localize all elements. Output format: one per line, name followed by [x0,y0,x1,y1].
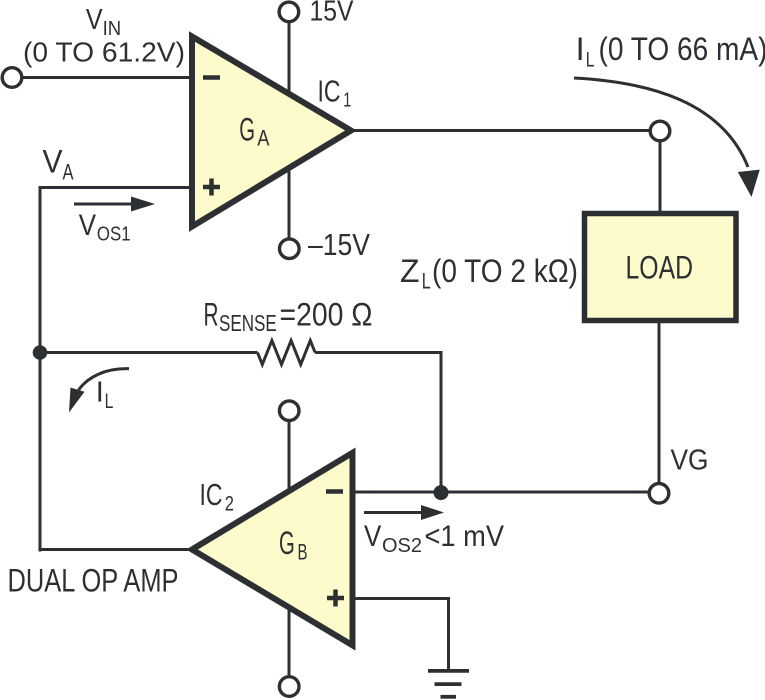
svg-text:R: R [204,297,219,333]
label GB (gain B) [279,525,308,565]
node/terminal at IC1 output [650,121,670,141]
svg-text:G: G [279,525,295,561]
svg-text:L: L [105,390,114,413]
label GA (gain A) [239,111,269,150]
junction node A (left) [33,345,48,360]
IC2 noninverting pin (+) [327,590,344,607]
IC2 inverting pin (-) [326,489,343,494]
svg-text:OS1: OS1 [97,223,131,246]
svg-text:Z: Z [400,253,420,289]
svg-text:<1 mV: <1 mV [425,520,505,553]
svg-text:DUAL OP AMP: DUAL OP AMP [8,563,179,599]
svg-text:OS2: OS2 [382,534,422,557]
svg-text:I: I [576,31,585,67]
wire node A to resistor [40,351,258,354]
svg-text:V: V [364,520,382,553]
arrow IL (curved, left) [69,369,129,413]
svg-text:I: I [96,377,104,409]
label VA [43,144,74,185]
label ZL (0 TO 2 kOhm) [400,253,578,294]
wire -15V supply to IC1 [288,171,291,239]
svg-text:VG: VG [671,445,709,477]
svg-text:V: V [43,144,64,180]
resistor RSENSE [258,341,316,365]
wire IC2 inverting input to VG [351,491,649,494]
terminal +15V [279,2,299,22]
wire node A down to IC2 input [40,548,195,551]
terminal -15V [280,239,300,259]
svg-text:IC: IC [318,74,341,108]
wire +15V supply to IC1 [288,23,291,96]
label VOS2<1 mV [364,520,504,557]
label IC1 [318,74,352,111]
svg-text:(0 TO 66 mA): (0 TO 66 mA) [599,31,765,67]
wire IC2 positive supply [288,421,291,490]
svg-text:–15V: –15V [308,228,371,262]
svg-text:L: L [422,269,431,294]
IC1 noninverting pin (+) [203,179,220,196]
terminal IC2 V+ [279,401,299,421]
svg-text:(0 TO 2 kΩ): (0 TO 2 kΩ) [432,253,578,289]
svg-text:V: V [86,4,103,36]
label VOS1 [79,209,131,246]
svg-text:L: L [586,48,595,72]
op-amp IC1 [192,37,351,227]
arrow VOS2 [364,505,444,520]
svg-text:2: 2 [225,492,234,515]
wire IC2 noninverting input to ground [351,599,449,671]
wire IC1 output to load node [350,129,650,132]
label IL (0 TO 66 mA) [576,31,765,71]
load Z_L (LOAD box) [585,214,737,321]
label VIN [86,4,121,40]
IC1 inverting pin (-) [203,75,220,80]
input terminal (VIN) [2,68,22,88]
svg-text:(0 TO 61.2V): (0 TO 61.2V) [23,37,185,68]
wire VA horizontal to IC1 noninverting input [40,186,193,189]
svg-text:=200 Ω: =200 Ω [280,297,373,333]
wire resistor to inverting input net [315,353,441,493]
wire LOAD to VG node [658,320,661,484]
label RSENSE=200 Ohm [204,297,373,336]
svg-text:1: 1 [343,88,351,111]
label IC2 [200,478,234,516]
label IL (left) [96,377,113,414]
arrow VOS1 [74,197,155,212]
svg-text:SENSE: SENSE [219,310,277,336]
arrow IL (curved, top right) [574,78,760,197]
wire load node down to LOAD [659,142,662,215]
svg-text:A: A [63,160,74,185]
svg-text:G: G [239,111,255,147]
svg-text:V: V [79,209,97,242]
svg-text:B: B [298,540,308,565]
wire IC2 negative supply [288,605,291,677]
ground [428,671,469,697]
svg-text:A: A [257,126,269,151]
junction at inverting input net [434,485,449,500]
op-amp IC2 [192,453,353,646]
svg-text:IC: IC [200,478,223,512]
wire VIN input to IC1 inverting input [20,76,193,79]
terminal IC2 V- [279,677,299,697]
terminal VG [649,484,669,504]
svg-text:LOAD: LOAD [626,250,694,286]
svg-text:15V: 15V [310,0,355,28]
wire VA vertical (node A) [39,186,42,552]
